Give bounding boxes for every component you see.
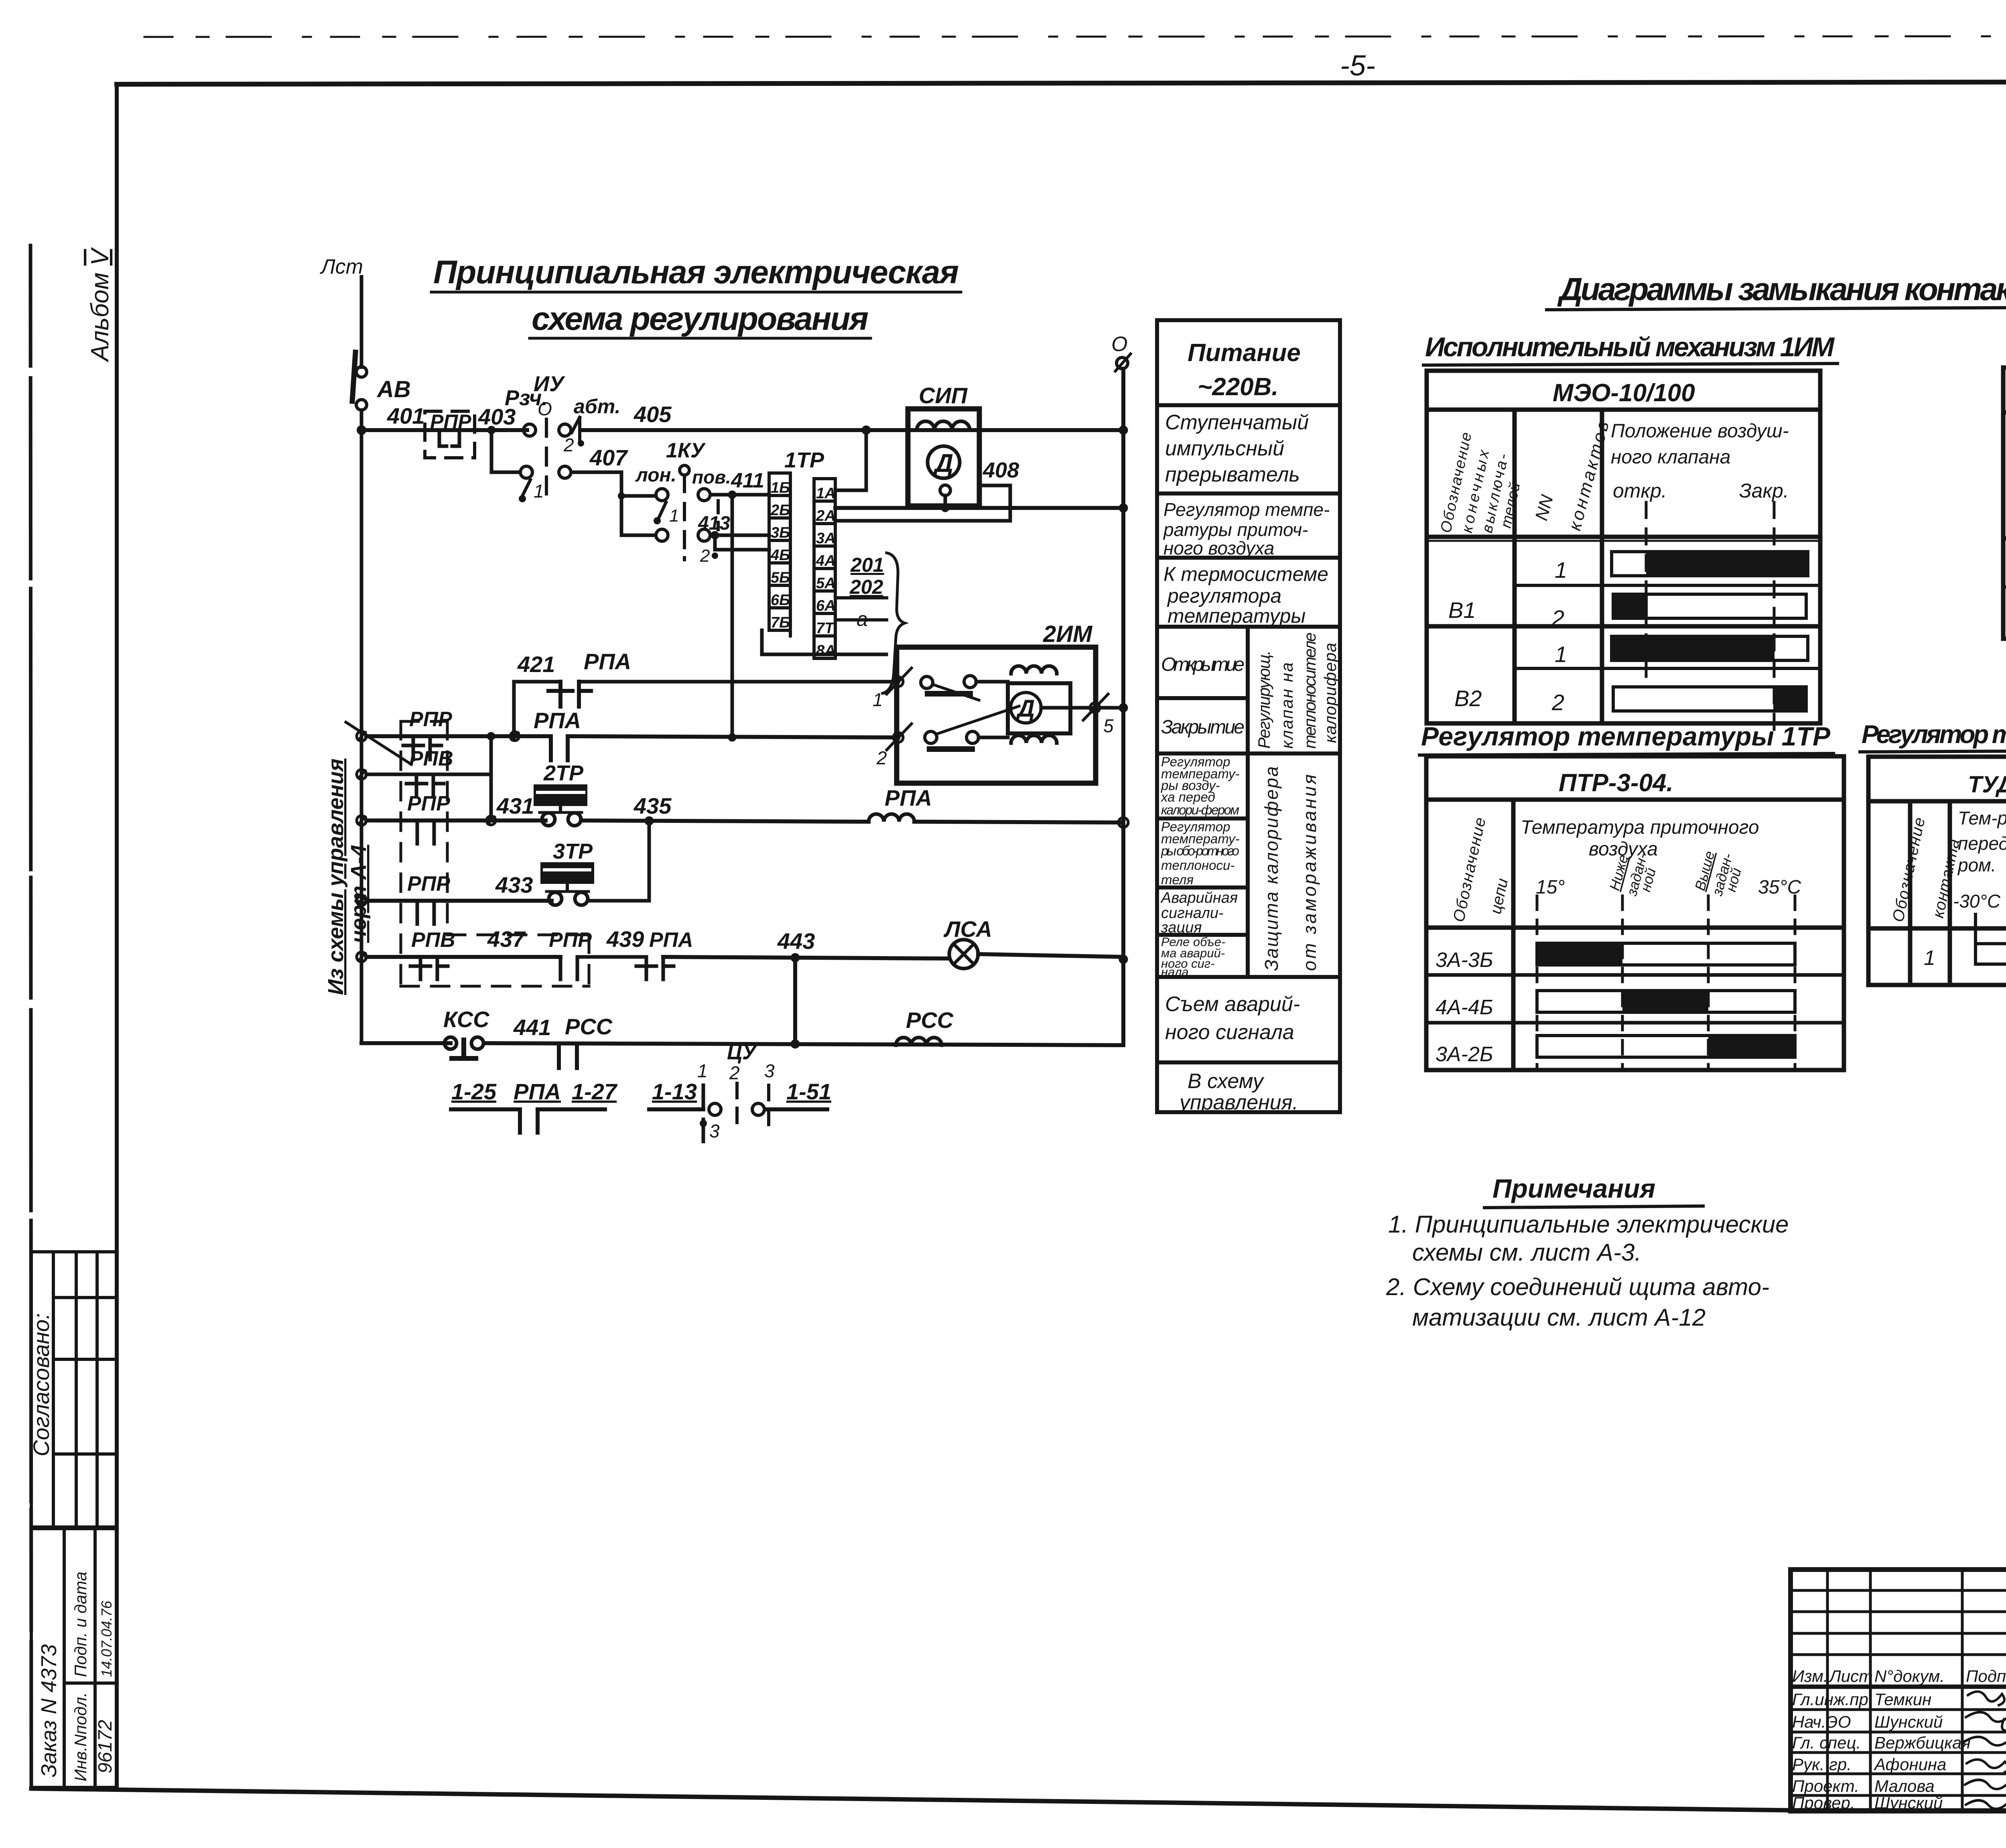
svg-text:Регулирующ.: Регулирующ. [1255,650,1273,749]
box Заказ N 4373 [31,1529,117,1787]
brace } [883,553,905,693]
svg-text:Рук. гр.: Рук. гр. [1792,1755,1852,1774]
svg-text:Регулятор температуры 2ТР: Регулятор температуры 2ТР [1862,720,2006,749]
outer left border [30,246,31,1789]
svg-text:2. Схему соединений щита ав: 2. Схему соединений щита авто- [1386,1273,1769,1300]
svg-text:откр.: откр. [1613,479,1667,502]
bar 3А-3Б [1537,943,1795,965]
svg-text:Ступенчатый: Ступенчатый [1165,411,1309,434]
svg-text:СИП: СИП [919,383,968,408]
svg-text:РПА: РПА [534,708,581,733]
svg-text:а: а [857,608,868,630]
svg-text:~220В.: ~220В. [1198,373,1279,401]
contact Рзч (upper) [499,386,548,436]
svg-text:433: 433 [495,872,533,898]
svg-text:прерыватель: прерыватель [1165,463,1300,486]
svg-text:РПР: РПР [549,928,592,952]
terminal block 1ТР [769,448,835,658]
svg-text:Д: Д [933,449,953,477]
table 1ТР ПТР-3-04 [1426,756,1844,1070]
legend column frame [1157,320,1340,1112]
svg-text:ного клапана: ного клапана [1611,447,1730,468]
wire 433 row E [357,872,552,906]
bar 2ТР [1976,944,2006,964]
svg-text:Закрытие: Закрытие [1161,717,1245,738]
svg-text:Тем-ра воздуха: Тем-ра воздуха [1958,808,2006,829]
selector ИУ dashed link [534,372,565,500]
svg-text:439: 439 [606,926,644,952]
svg-text:431: 431 [496,793,534,818]
svg-text:1: 1 [1555,557,1567,583]
svg-text:15°: 15° [1536,877,1565,898]
wire а (bottom loop) [762,608,886,654]
svg-text:МЭО-10/100: МЭО-10/100 [1553,379,1695,407]
svg-text:4А: 4А [816,552,836,569]
svg-text:регулятора: регулятора [1167,585,1281,607]
contact РПР row E [417,901,434,924]
svg-text:435: 435 [633,793,672,818]
svg-text:Изм.: Изм. [1792,1667,1828,1686]
svg-text:Обозначение: Обозначение [1450,816,1489,924]
svg-text:Регулятор темпе-: Регулятор темпе- [1163,499,1330,520]
vertical label: Альбом V [86,247,114,363]
dashed selection boxes [401,721,589,986]
svg-text:РПР: РПР [409,708,452,731]
contact РПР (row B left, in dashed box) [403,708,452,760]
svg-text:14.07.04.76: 14.07.04.76 [98,1600,115,1677]
wire 413 branch [621,496,769,566]
thermostat 2ТР [535,761,586,826]
svg-text:клапан на: клапан на [1277,662,1296,749]
svg-text:В2: В2 [1454,686,1482,711]
svg-text:Инв.Nподл.: Инв.Nподл. [71,1692,90,1781]
svg-text:1-27: 1-27 [572,1079,618,1104]
svg-text:1: 1 [669,506,679,526]
svg-text:В1: В1 [1448,597,1476,623]
contact абт (lower) [559,445,628,478]
page number -5- top center [1340,50,1375,82]
svg-text:ПТР-3-04.: ПТР-3-04. [1559,769,1673,797]
svg-text:1-25: 1-25 [451,1079,497,1104]
svg-text:лон.: лон. [635,465,676,486]
svg-text:РСС: РСС [906,1007,954,1033]
svg-text:7Т: 7Т [816,620,835,637]
contact РСС [559,1044,577,1068]
svg-text:421: 421 [517,652,555,677]
signature scribbles [1965,1692,2006,1812]
svg-text:201: 201 [850,554,884,576]
svg-text:калорифера: калорифера [1321,643,1340,743]
svg-text:Нач.ЭО: Нач.ЭО [1792,1712,1851,1731]
contact пов [692,467,769,530]
svg-text:1ТР: 1ТР [784,448,824,472]
svg-text:теля: теля [1161,872,1194,887]
coil РСС [896,1007,954,1045]
table 2ТР ТУДЭ-1 [1868,757,2006,985]
svg-text:пов.: пов. [692,467,731,487]
svg-text:Питание: Питание [1188,339,1301,367]
svg-text:РПА: РПА [514,1079,561,1104]
spare contact 1-13 ЦУ [649,1060,721,1141]
table РВ ВС-10-33 [2003,368,2006,639]
spare contacts row: 1-25 РПА 1-27 [451,1079,618,1133]
svg-text:6А: 6А [816,597,836,614]
contact Рзч (lower) [519,466,544,502]
box Согласовано [31,1252,117,1527]
svg-text:РПВ: РПВ [411,928,455,952]
thermostat 3ТР [542,839,593,905]
selector 1КУ dashed link [666,439,706,558]
svg-text:N°докум.: N°докум. [1874,1667,1945,1686]
svg-text:441: 441 [513,1015,551,1040]
svg-text:АВ: АВ [376,376,411,402]
svg-text:теплоносителе: теплоносителе [1300,632,1319,749]
svg-text:-30°С: -30°С [1953,891,2001,912]
svg-text:1Б: 1Б [771,479,790,496]
contact РПР row D [417,820,434,844]
svg-text:2ТР: 2ТР [543,761,584,785]
svg-text:1: 1 [697,1060,708,1081]
signature grid left [1791,1570,2006,1811]
svg-text:Лст: Лст [320,255,363,278]
svg-text:ром.: ром. [1957,855,1996,875]
svg-text:Заказ N 4373: Заказ N 4373 [37,1644,61,1777]
svg-text:2: 2 [700,546,710,566]
wire row E to 435 [588,821,649,901]
svg-text:Темкин: Темкин [1874,1690,1931,1709]
svg-text:температуры: температуры [1167,605,1306,627]
svg-text:матизации см. лист А-12: матизации см. лист А-12 [1412,1304,1706,1331]
contact РПА row B [551,734,898,760]
bottom rail wire [361,1040,1123,1048]
svg-text:ИУ: ИУ [534,372,565,396]
svg-text:Защита калорифера: Защита калорифера [1261,766,1282,971]
svg-text:1: 1 [1924,946,1935,970]
heading Регулятор температуры 2ТР [1862,720,2006,749]
selector ЦУ dashed [727,1041,758,1131]
svg-text:КСС: КСС [443,1007,490,1032]
wire 411 to bus down [729,491,736,737]
svg-text:413: 413 [698,513,730,534]
wires 201 202 to brace [835,554,887,620]
wire row F (437) [357,926,693,962]
svg-text:2: 2 [1551,690,1564,715]
svg-text:Регулятор температуры 1ТР: Регулятор температуры 1ТР [1421,721,1831,751]
svg-text:схемы см. лист А-3.: схемы см. лист А-3. [1412,1239,1641,1266]
svg-text:NN: NN [1531,493,1557,522]
svg-text:4А-4Б: 4А-4Б [1435,996,1493,1019]
svg-text:контактов: контактов [1565,419,1613,532]
svg-text:ратуры приточ-: ратуры приточ- [1163,519,1308,540]
svg-text:Д: Д [1015,695,1035,722]
svg-text:96172: 96172 [95,1720,116,1773]
svg-text:Согласовано:: Согласовано: [28,1313,54,1456]
node О (neutral terminal) [1111,333,1131,371]
svg-text:Температура приточного: Температура приточного [1521,817,1759,838]
svg-text:О: О [538,398,552,419]
relay РПР (dashed box on wire 401) [425,404,516,458]
svg-text:Шунский: Шунский [1874,1712,1943,1731]
limit switch right (5) [1083,694,1127,736]
bar 3А-2Б [1537,1036,1795,1057]
svg-text:Подп.: Подп. [1966,1667,2006,1686]
heading Регулятор температуры 1ТР [1421,721,1831,751]
svg-text:-5-: -5- [1340,50,1375,82]
bar В1-1 [1612,552,1808,576]
svg-text:5: 5 [1103,715,1114,736]
contact РПВ row F [410,957,448,979]
bar В2-2 [1613,687,1806,711]
contact лон [635,465,679,526]
svg-text:РПР: РПР [407,872,450,896]
svg-text:цепи: цепи [1487,877,1512,916]
svg-text:1КУ: 1КУ [666,439,706,462]
wire 408 / 3А loop [835,458,1019,521]
svg-text:Афонина: Афонина [1873,1755,1946,1774]
svg-text:3А-3Б: 3А-3Б [1435,948,1493,972]
ticks 2ТР [1976,914,2006,944]
svg-text:управления.: управления. [1178,1091,1298,1114]
svg-text:Примечания: Примечания [1492,1174,1655,1203]
wire 443 [777,928,815,1043]
heading Исполнительный механизм 1ИМ [1425,332,1835,362]
svg-text:6Б: 6Б [771,592,790,609]
svg-text:411: 411 [731,469,764,492]
svg-text:202: 202 [849,576,883,598]
spare contact 1-51 [752,1060,831,1131]
svg-text:408: 408 [983,458,1019,482]
svg-text:Открытие: Открытие [1161,654,1245,675]
svg-text:ЦУ: ЦУ [727,1041,758,1064]
svg-text:Подп. и дата: Подп. и дата [71,1572,90,1677]
contact абт (upper) [559,395,620,455]
wire 407 to лон [618,472,656,499]
svg-text:импульсный: импульсный [1165,437,1284,460]
coil СИП [908,383,979,508]
wire 435 [581,793,869,825]
svg-text:ры обо-ротного: ры обо-ротного [1161,843,1239,858]
svg-text:437: 437 [487,926,526,952]
contact РПА row F [636,957,947,979]
svg-text:443: 443 [777,928,815,954]
svg-text:Проект.: Проект. [1792,1777,1859,1795]
wire РПА row (Закрытие row B) [357,708,581,741]
svg-text:нала: нала [1161,965,1189,979]
svg-text:ного сигнала: ного сигнала [1165,1021,1294,1044]
breaker АВ [352,352,411,410]
svg-text:405: 405 [633,402,672,427]
dashed temp lines 1ТР [1537,896,1795,1067]
table 1ИМ МЭО-10/100 [1427,371,1820,723]
svg-text:3: 3 [709,1121,720,1141]
wire Открытие (421 row) [514,649,631,737]
svg-text:РПР: РПР [430,410,471,433]
svg-text:черт А-4: черт А-4 [347,845,371,943]
svg-text:К термосистеме: К термосистеме [1163,563,1328,585]
contact РПА 421 [548,682,898,707]
svg-text:2: 2 [876,747,887,768]
svg-text:2: 2 [729,1062,740,1083]
svg-text:3ТР: 3ТР [553,839,593,863]
svg-text:Гл.инж.пр: Гл.инж.пр [1792,1690,1868,1709]
svg-text:3А-2Б: 3А-2Б [1435,1043,1493,1066]
svg-text:перед калорифе-: перед калорифе- [1958,833,2006,854]
svg-text:Обозначение: Обозначение [1889,816,1929,924]
svg-text:РПА: РПА [649,928,693,952]
svg-text:Диаграммы замыкания контакто: Диаграммы замыкания контактов [1557,271,2006,307]
svg-text:Провер.: Провер. [1792,1793,1855,1812]
title block frame [1791,1570,2006,1811]
wire РПВ row C [357,747,491,779]
lamp ЛСА [943,916,1127,969]
svg-text:Закр.: Закр. [1739,479,1789,502]
svg-text:7Б: 7Б [771,614,790,631]
svg-text:В схему: В схему [1188,1070,1265,1093]
svg-text:1. Принципиальные электрическ: 1. Принципиальные электрические [1388,1211,1789,1238]
svg-text:3Б: 3Б [771,524,790,541]
svg-text:Аварийная: Аварийная [1160,889,1238,906]
svg-text:4Б: 4Б [770,547,790,564]
svg-text:5Б: 5Б [771,569,790,586]
svg-text:401: 401 [387,403,424,428]
wire 1А to 405 [835,426,870,490]
svg-text:РПА: РПА [584,649,631,674]
svg-text:ТУДЭ-1: ТУДЭ-1 [1968,772,2006,798]
svg-text:1: 1 [873,689,883,710]
motor block 2ИМ [897,621,1096,783]
svg-text:Лист: Лист [1828,1667,1873,1686]
svg-text:схема регулирования: схема регулирования [532,301,869,337]
svg-text:РПА: РПА [885,785,932,810]
heading Диаграммы замыкания контактов [1557,271,2006,307]
wire 431 row D [357,792,546,825]
svg-text:2: 2 [563,435,574,455]
svg-text:Принципиальная электрическая: Принципиальная электрическая [433,254,959,290]
bar В1-2 [1613,594,1806,618]
wire 403 lower branch [488,426,520,472]
contact 1 (открытие) in 2ИМ [873,668,1008,710]
right bus wire [1119,369,1127,1043]
svg-text:ЛСА: ЛСА [943,916,992,942]
contact РПВ row C [406,774,444,797]
svg-text:8А: 8А [816,642,836,659]
svg-text:1-51: 1-51 [786,1079,831,1104]
bar 4А-4Б [1537,991,1795,1012]
svg-text:Положение воздуш-: Положение воздуш- [1611,420,1789,442]
button КСС [443,1007,613,1058]
bar В2-1 [1612,636,1808,660]
dashed limit lines откр/закр [1646,502,1774,730]
svg-text:3: 3 [764,1060,775,1081]
outer top dashed border [144,36,2006,37]
wire 2А (to right bus) [835,504,1123,512]
coil РПА (row D) [869,785,1128,827]
svg-text:Шунский: Шунский [1874,1793,1943,1812]
svg-text:О: О [1111,333,1127,356]
svg-text:калори-фером: калори-фером [1161,802,1239,817]
svg-text:Альбом V: Альбом V [86,247,114,363]
svg-text:Гл. спец.: Гл. спец. [1792,1733,1861,1752]
svg-text:Исполнительный механизм 1ИМ: Исполнительный механизм 1ИМ [1425,332,1835,362]
svg-text:Малова: Малова [1874,1777,1935,1795]
svg-text:Вержбицкая: Вержбицкая [1874,1733,1971,1752]
svg-text:1: 1 [534,481,544,502]
svg-text:407: 407 [589,445,628,470]
svg-text:ного воздуха: ного воздуха [1163,538,1274,558]
svg-text:1А: 1А [816,485,836,502]
vertical link rows B-D [487,733,495,820]
svg-text:1-13: 1-13 [652,1079,697,1104]
svg-text:зация: зация [1161,919,1202,936]
svg-text:Из схемы управления: Из схемы управления [324,759,348,995]
svg-text:1: 1 [1555,642,1567,667]
svg-text:2ИМ: 2ИМ [1043,621,1093,647]
contact 2 (закрытие) in 2ИМ [876,706,1019,768]
svg-text:теплоноси-: теплоноси- [1161,858,1234,873]
svg-text:3А: 3А [816,530,836,547]
svg-text:от замораживания: от замораживания [1299,774,1320,971]
MAIN TITLE [433,254,959,337]
svg-text:2Б: 2Б [770,502,790,519]
svg-text:абт.: абт. [574,395,620,418]
wire 405 [581,402,1123,430]
svg-text:Съем аварий-: Съем аварий- [1165,993,1300,1016]
wire 401 [357,403,527,434]
contact РПР row F [560,957,646,979]
svg-text:РПР: РПР [407,792,450,815]
svg-text:2: 2 [1551,605,1564,631]
wire 413 junction down [711,532,769,550]
motor Д in 2ИМ [1008,666,1095,743]
svg-text:РСС: РСС [565,1014,613,1039]
svg-text:2А: 2А [816,508,836,524]
svg-text:5А: 5А [816,575,836,592]
node Лст (phase terminal) [320,255,363,367]
label Из схемы управления черт А-4 [324,759,371,995]
arrow to РПВ [346,722,411,764]
left bus wire [360,410,363,1043]
